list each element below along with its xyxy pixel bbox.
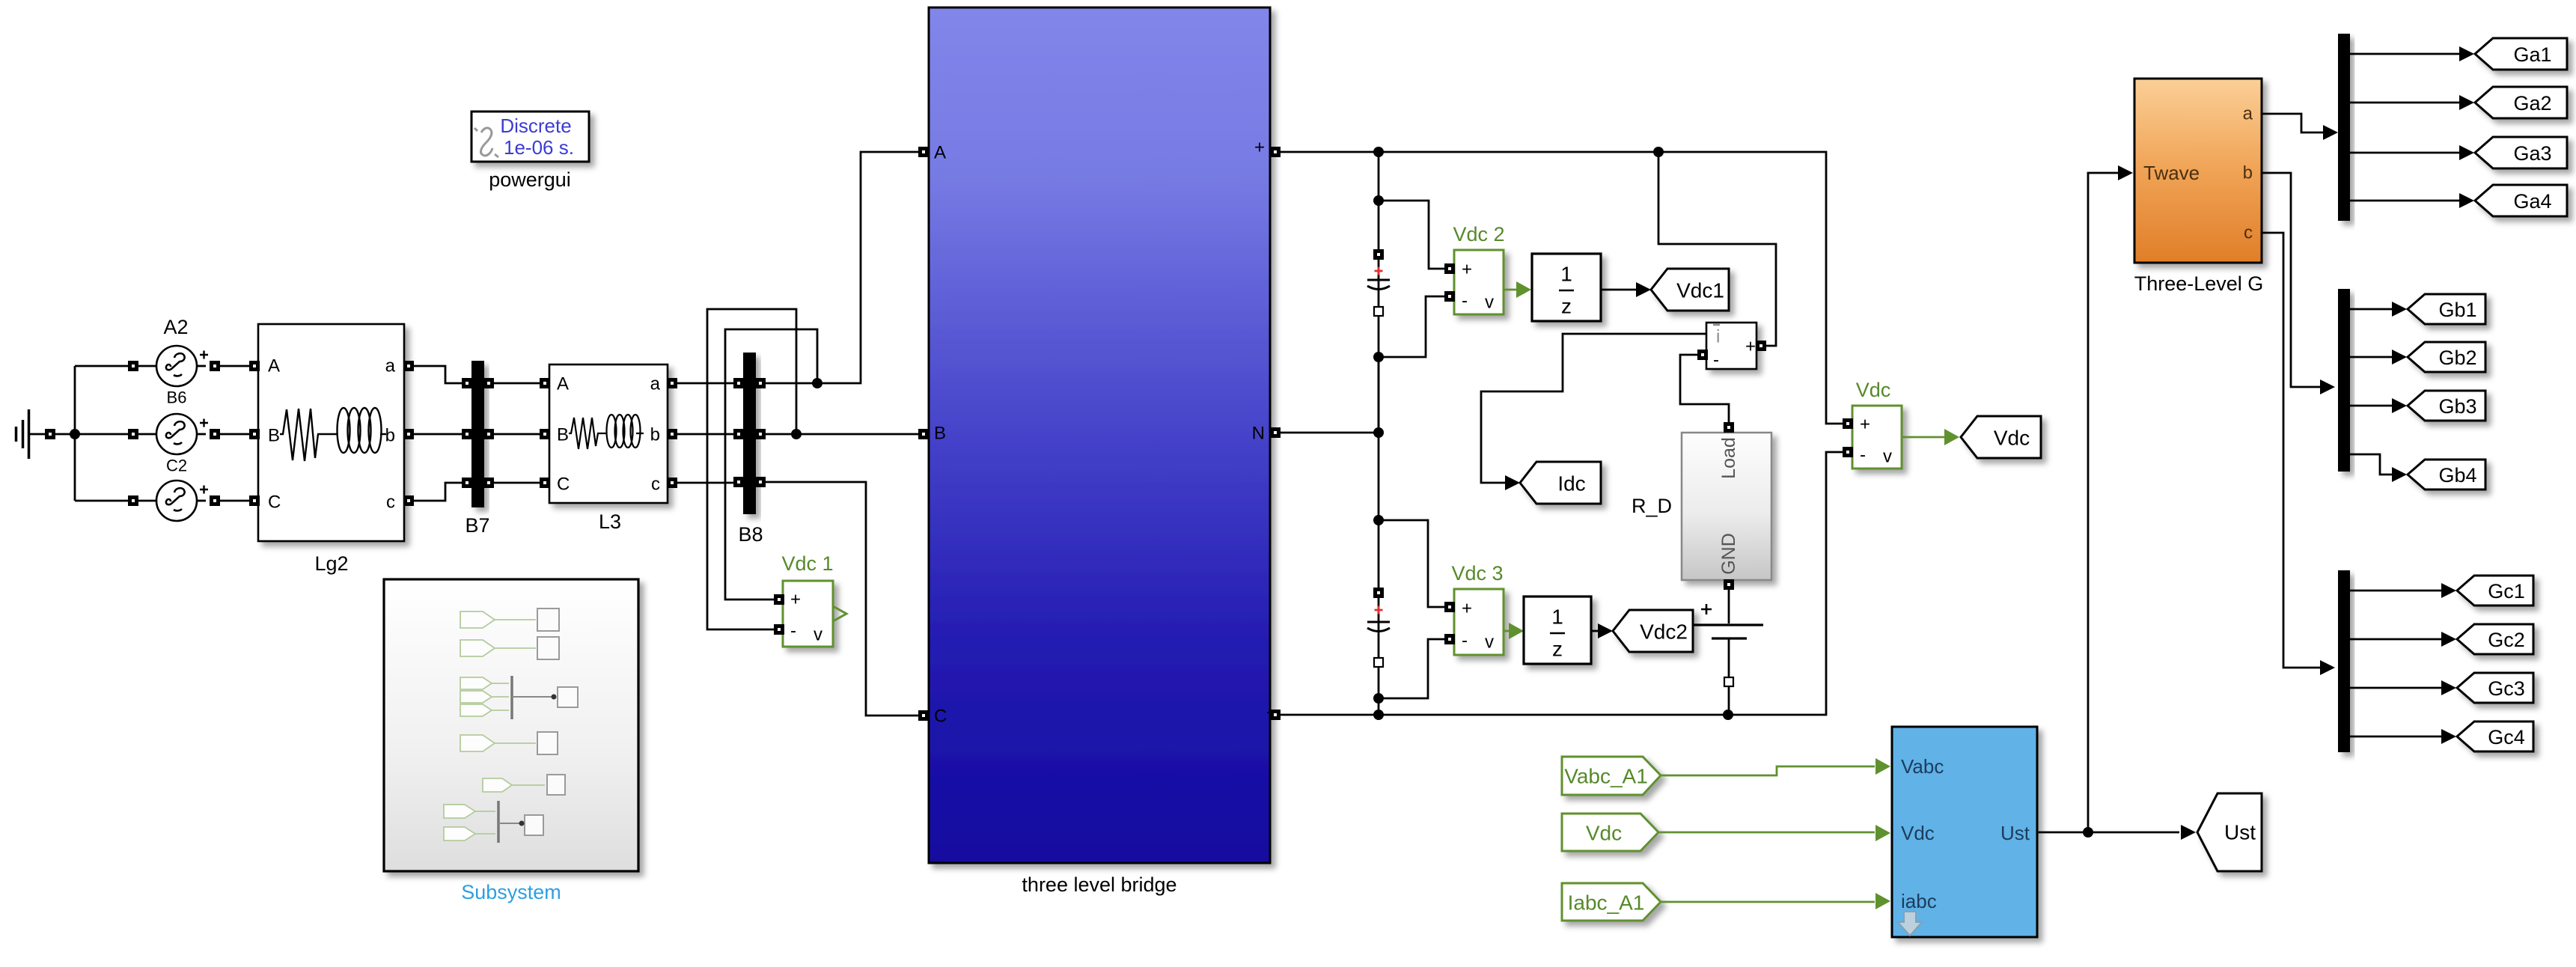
node + rail to capacitor chain (1373, 147, 1384, 157)
wire current meas output to Idc goto (1481, 334, 1706, 483)
wire Ust output (2037, 832, 2179, 834)
svg-text:+: + (1462, 599, 1472, 619)
svg-text:Vabc: Vabc (1901, 755, 1944, 778)
svg-text:A2: A2 (163, 316, 188, 338)
wire 1/z to Vdc1 goto (1601, 289, 1636, 291)
goto tag Gc4 (2457, 722, 2533, 751)
svg-text:L3: L3 (599, 510, 621, 533)
wire phase A to source A2 (75, 365, 128, 367)
svg-text:a: a (2243, 104, 2253, 124)
wire L3.b to B8 (677, 433, 733, 436)
wire Lg2.c to B7 (414, 483, 462, 501)
svg-text:A: A (934, 143, 946, 163)
powergui block (471, 112, 589, 191)
wire - rail (1281, 452, 1843, 715)
node - rail capacitor chain (1373, 710, 1384, 720)
AC source A2 (156, 316, 208, 407)
svg-text:i: i (1716, 327, 1720, 347)
svg-text:Gb4: Gb4 (2438, 464, 2476, 486)
wire 1/z to Vdc2 goto (1591, 630, 1598, 632)
svg-text:GND: GND (1718, 533, 1739, 575)
bus bar B8 (738, 353, 763, 546)
svg-text:powergui: powergui (489, 168, 571, 191)
goto tag Gb1 (2408, 294, 2485, 324)
svg-text:A: A (268, 356, 280, 376)
svg-text:Iabc_A1: Iabc_A1 (1568, 891, 1645, 915)
goto tag Gc2 (2457, 624, 2533, 654)
wire phase B to source B6 (75, 433, 128, 436)
wire Vdc2 + sense (1379, 201, 1445, 269)
svg-text:Ga1: Ga1 (2513, 43, 2551, 66)
svg-text:Gc4: Gc4 (2488, 726, 2525, 748)
bus bar B7 (465, 361, 489, 537)
svg-text:b: b (2243, 163, 2253, 183)
svg-text:Discrete: Discrete (500, 115, 571, 137)
wire Vdc3 + sense (1379, 520, 1445, 607)
svg-text:Twave: Twave (2143, 162, 2200, 184)
wire Vabc_A1 to controller (1661, 766, 1875, 775)
svg-text:Idc: Idc (1557, 472, 1585, 495)
svg-text:B7: B7 (465, 514, 489, 537)
svg-text:Vdc 1: Vdc 1 (781, 552, 833, 575)
svg-text:B: B (268, 426, 280, 446)
wire current meas - to load (1680, 355, 1729, 425)
wire N rail (1281, 432, 1379, 434)
svg-text:Vdc 2: Vdc 2 (1453, 223, 1504, 245)
wire phase C to source C2 (75, 500, 128, 502)
ground (16, 409, 76, 459)
wire Vdc output to goto (1902, 436, 1944, 439)
svg-text:C: C (268, 492, 281, 513)
svg-text:C: C (557, 475, 570, 495)
svg-text:three level bridge: three level bridge (1022, 873, 1176, 896)
svg-text:Vdc1: Vdc1 (1676, 279, 1724, 302)
inductor glyph (603, 415, 644, 448)
svg-text:Gb3: Gb3 (2438, 395, 2476, 418)
wire + rail (1281, 152, 1843, 424)
wire to Gb3 (2350, 405, 2392, 407)
demux bus B (2338, 289, 2350, 472)
wire a to demux A (2262, 114, 2323, 132)
svg-text:Lg2: Lg2 (314, 552, 348, 575)
svg-text:Gc1: Gc1 (2488, 580, 2525, 603)
capacitor C2 (1367, 588, 1390, 667)
svg-text:-: - (1860, 445, 1866, 466)
wire to Ga4 (2350, 200, 2459, 202)
node Ust junction (2083, 827, 2093, 838)
subsystem block (384, 579, 638, 903)
svg-text:c: c (2244, 223, 2253, 243)
wire neutral bus (74, 366, 76, 501)
svg-text:b: b (385, 426, 395, 446)
wire Vdc3 - sense (1379, 639, 1445, 698)
svg-text:Load: Load (1718, 437, 1739, 479)
controller subsystem (blue) (1892, 727, 2037, 937)
wire b to demux B (2262, 173, 2320, 387)
svg-text:z: z (1552, 638, 1563, 661)
wire cap chain N to cap2 (1378, 357, 1380, 433)
wire capacitor chain vertical (1378, 152, 1380, 715)
from tag Vabc_A1 (1562, 757, 1661, 795)
wire Vdc2 output (1504, 289, 1516, 291)
svg-text:c: c (386, 492, 395, 513)
wire Vdc to controller (1658, 832, 1875, 834)
svg-text:1: 1 (1551, 605, 1563, 629)
svg-text:A: A (557, 374, 569, 394)
AC source C2 (156, 481, 208, 521)
unit delay 1/z (lower) (1524, 597, 1591, 664)
svg-text:-: - (1713, 350, 1719, 370)
svg-text:+: + (1254, 138, 1265, 158)
node b sense junction (791, 429, 802, 439)
goto tag Ga3 (2475, 137, 2567, 168)
svg-text:-: - (1462, 631, 1468, 651)
goto tag Ga2 (2475, 87, 2567, 118)
from tag Iabc_A1 (1562, 883, 1661, 921)
node a sense junction (812, 378, 822, 388)
three-phase source impedance block Lg2 (258, 324, 404, 575)
voltage measurement Vdc 3 (1451, 562, 1504, 655)
svg-text:iabc: iabc (1901, 890, 1937, 912)
goto tag Idc (1520, 462, 1601, 504)
goto tag Ga4 (2475, 185, 2567, 216)
svg-text:Ust: Ust (2224, 821, 2256, 844)
demux bus A (2338, 34, 2350, 221)
goto tag Gc1 (2457, 576, 2533, 605)
node cap2 + sense (1373, 515, 1384, 525)
svg-text:Vdc: Vdc (1856, 379, 1891, 401)
wire L3.c to B8 (677, 482, 733, 484)
wire to Gb2 (2350, 356, 2392, 359)
wire to Ga3 (2350, 152, 2459, 154)
node cap2 - sense (1373, 693, 1384, 704)
wire + rail to current measurement (1658, 152, 1776, 346)
series RL block L3 (549, 364, 668, 533)
svg-text:v: v (1883, 447, 1892, 467)
wire to Gc3 (2350, 687, 2441, 689)
wire to Ga1 (2350, 53, 2459, 55)
voltage measurement Vdc 1 (781, 552, 846, 647)
wire B7 to L3 phase b (494, 433, 540, 436)
Three-Level G block (2134, 79, 2264, 295)
from tag Vdc (1562, 814, 1658, 851)
demux bus C (2338, 570, 2350, 752)
svg-text:+: + (1860, 415, 1870, 435)
wire B8.c to bridge port C (766, 482, 918, 716)
svg-text:N: N (1252, 424, 1265, 444)
wire to Gb1 (2350, 308, 2392, 311)
wire L3.a to B8 (677, 382, 733, 385)
svg-text:a: a (650, 374, 661, 394)
wire Vdc1 + sense (725, 329, 817, 600)
wire c to demux C (2262, 233, 2320, 668)
node: source neutral junction (70, 429, 80, 439)
svg-text:Vdc: Vdc (1586, 822, 1622, 845)
capacitor C1 (1367, 249, 1390, 316)
svg-text:v: v (814, 625, 822, 645)
current measurement I (1706, 323, 1756, 370)
wire Lg2.a to B7 (414, 366, 462, 383)
svg-text:1e-06 s.: 1e-06 s. (504, 136, 574, 159)
svg-text:Ust: Ust (2000, 822, 2030, 844)
goto tag Gb3 (2408, 391, 2485, 421)
svg-text:-: - (790, 621, 796, 641)
svg-text:Vdc: Vdc (1994, 427, 2030, 450)
svg-text:+: + (1745, 337, 1756, 357)
svg-text:B8: B8 (738, 523, 763, 546)
goto tag Ust (2197, 793, 2262, 871)
node cap1 - sense (1373, 352, 1384, 362)
svg-text:a: a (385, 356, 396, 376)
goto tag Gb4 (2408, 460, 2485, 489)
wire to Gb4 (2350, 454, 2392, 475)
wire Vdc1 - sense (707, 309, 796, 629)
wire feedback to Twave (2088, 173, 2118, 832)
svg-text:C2: C2 (166, 457, 187, 475)
unit delay 1/z (upper) (1532, 254, 1601, 321)
wire Vdc2 - sense (1379, 296, 1445, 357)
wire to Ga2 (2350, 102, 2459, 104)
svg-text:Gb2: Gb2 (2438, 347, 2476, 369)
node N junction (1373, 427, 1384, 438)
goto tag Gb2 (2408, 342, 2485, 372)
svg-text:Gc2: Gc2 (2488, 629, 2525, 651)
svg-text:1: 1 (1560, 263, 1572, 286)
wire B8.b to bridge port B (766, 433, 918, 436)
resistor glyph (280, 409, 329, 461)
wire to Gc4 (2350, 736, 2441, 738)
goto tag Vdc2 (1613, 610, 1693, 652)
node - rail battery (1723, 710, 1733, 720)
wire B8.a to bridge port A (766, 152, 918, 383)
svg-text:B: B (557, 425, 569, 445)
wire B7 to L3 phase a (494, 382, 540, 385)
goto tag Vdc1 (1651, 269, 1729, 311)
goto tag Vdc (1961, 416, 2041, 458)
wire to Gc1 (2350, 590, 2441, 592)
voltage measurement Vdc (1852, 379, 1902, 469)
wire B7 to L3 phase c (494, 482, 540, 484)
three level bridge block (929, 7, 1272, 896)
load block R_D (1632, 433, 1771, 580)
svg-text:B: B (934, 424, 946, 444)
goto tag Gc3 (2457, 673, 2533, 703)
svg-text:+: + (1462, 260, 1472, 280)
AC source B6 (156, 414, 208, 475)
svg-text:Gb1: Gb1 (2438, 299, 2476, 321)
wire Iabc_A1 to controller (1661, 901, 1875, 903)
wire to Gc2 (2350, 638, 2441, 641)
svg-text:c: c (651, 475, 660, 495)
node cap1 + sense (1373, 195, 1384, 206)
svg-text:-: - (1462, 291, 1468, 311)
svg-text:Subsystem: Subsystem (461, 881, 561, 903)
svg-text:Gc3: Gc3 (2488, 677, 2525, 700)
goto tag Ga1 (2475, 38, 2567, 70)
svg-text:b: b (650, 425, 660, 445)
svg-text:B6: B6 (167, 388, 187, 407)
svg-text:Three-Level G: Three-Level G (2134, 272, 2264, 295)
wire Lg2.b to B7 (414, 433, 462, 436)
resistor glyph (569, 418, 603, 449)
svg-text:v: v (1485, 632, 1494, 653)
svg-text:Ga2: Ga2 (2513, 92, 2551, 115)
svg-text:R_D: R_D (1632, 495, 1672, 517)
inductor glyph (329, 408, 386, 453)
svg-text:+: + (790, 590, 801, 610)
svg-text:Ga3: Ga3 (2513, 142, 2551, 165)
svg-text:z: z (1561, 295, 1572, 318)
svg-text:Vdc 3: Vdc 3 (1451, 562, 1503, 585)
voltage measurement Vdc 2 (1453, 223, 1504, 314)
svg-text:Ga4: Ga4 (2513, 190, 2551, 213)
svg-text:Vabc_A1: Vabc_A1 (1564, 765, 1648, 788)
DC battery under load (1693, 589, 1763, 715)
wire Vdc3 output (1504, 630, 1509, 632)
svg-text:Vdc2: Vdc2 (1640, 620, 1688, 644)
svg-text:Vdc: Vdc (1901, 822, 1935, 844)
svg-text:v: v (1485, 293, 1494, 313)
node + rail to current measurement (1653, 147, 1664, 157)
svg-text:C: C (934, 707, 947, 727)
